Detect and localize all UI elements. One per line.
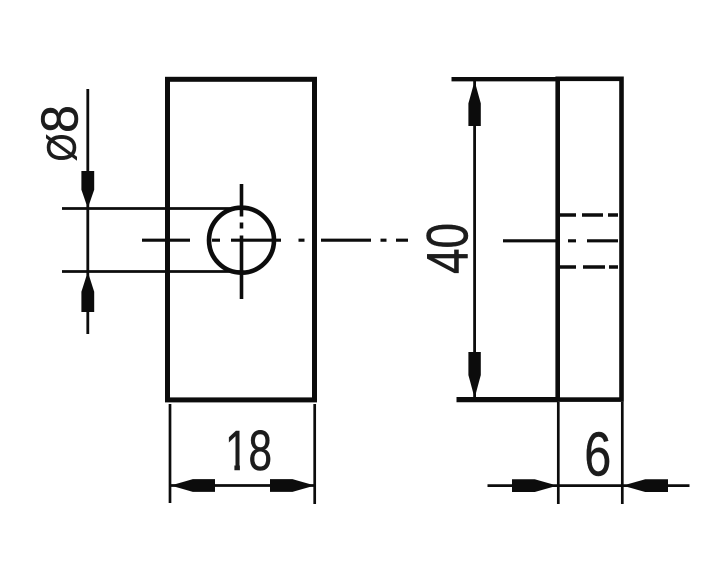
svg-text:Ø: Ø	[39, 134, 85, 162]
svg-text:40: 40	[415, 223, 480, 274]
svg-text:6: 6	[584, 420, 611, 489]
svg-text:8: 8	[31, 105, 89, 133]
svg-text:18: 18	[225, 419, 272, 483]
